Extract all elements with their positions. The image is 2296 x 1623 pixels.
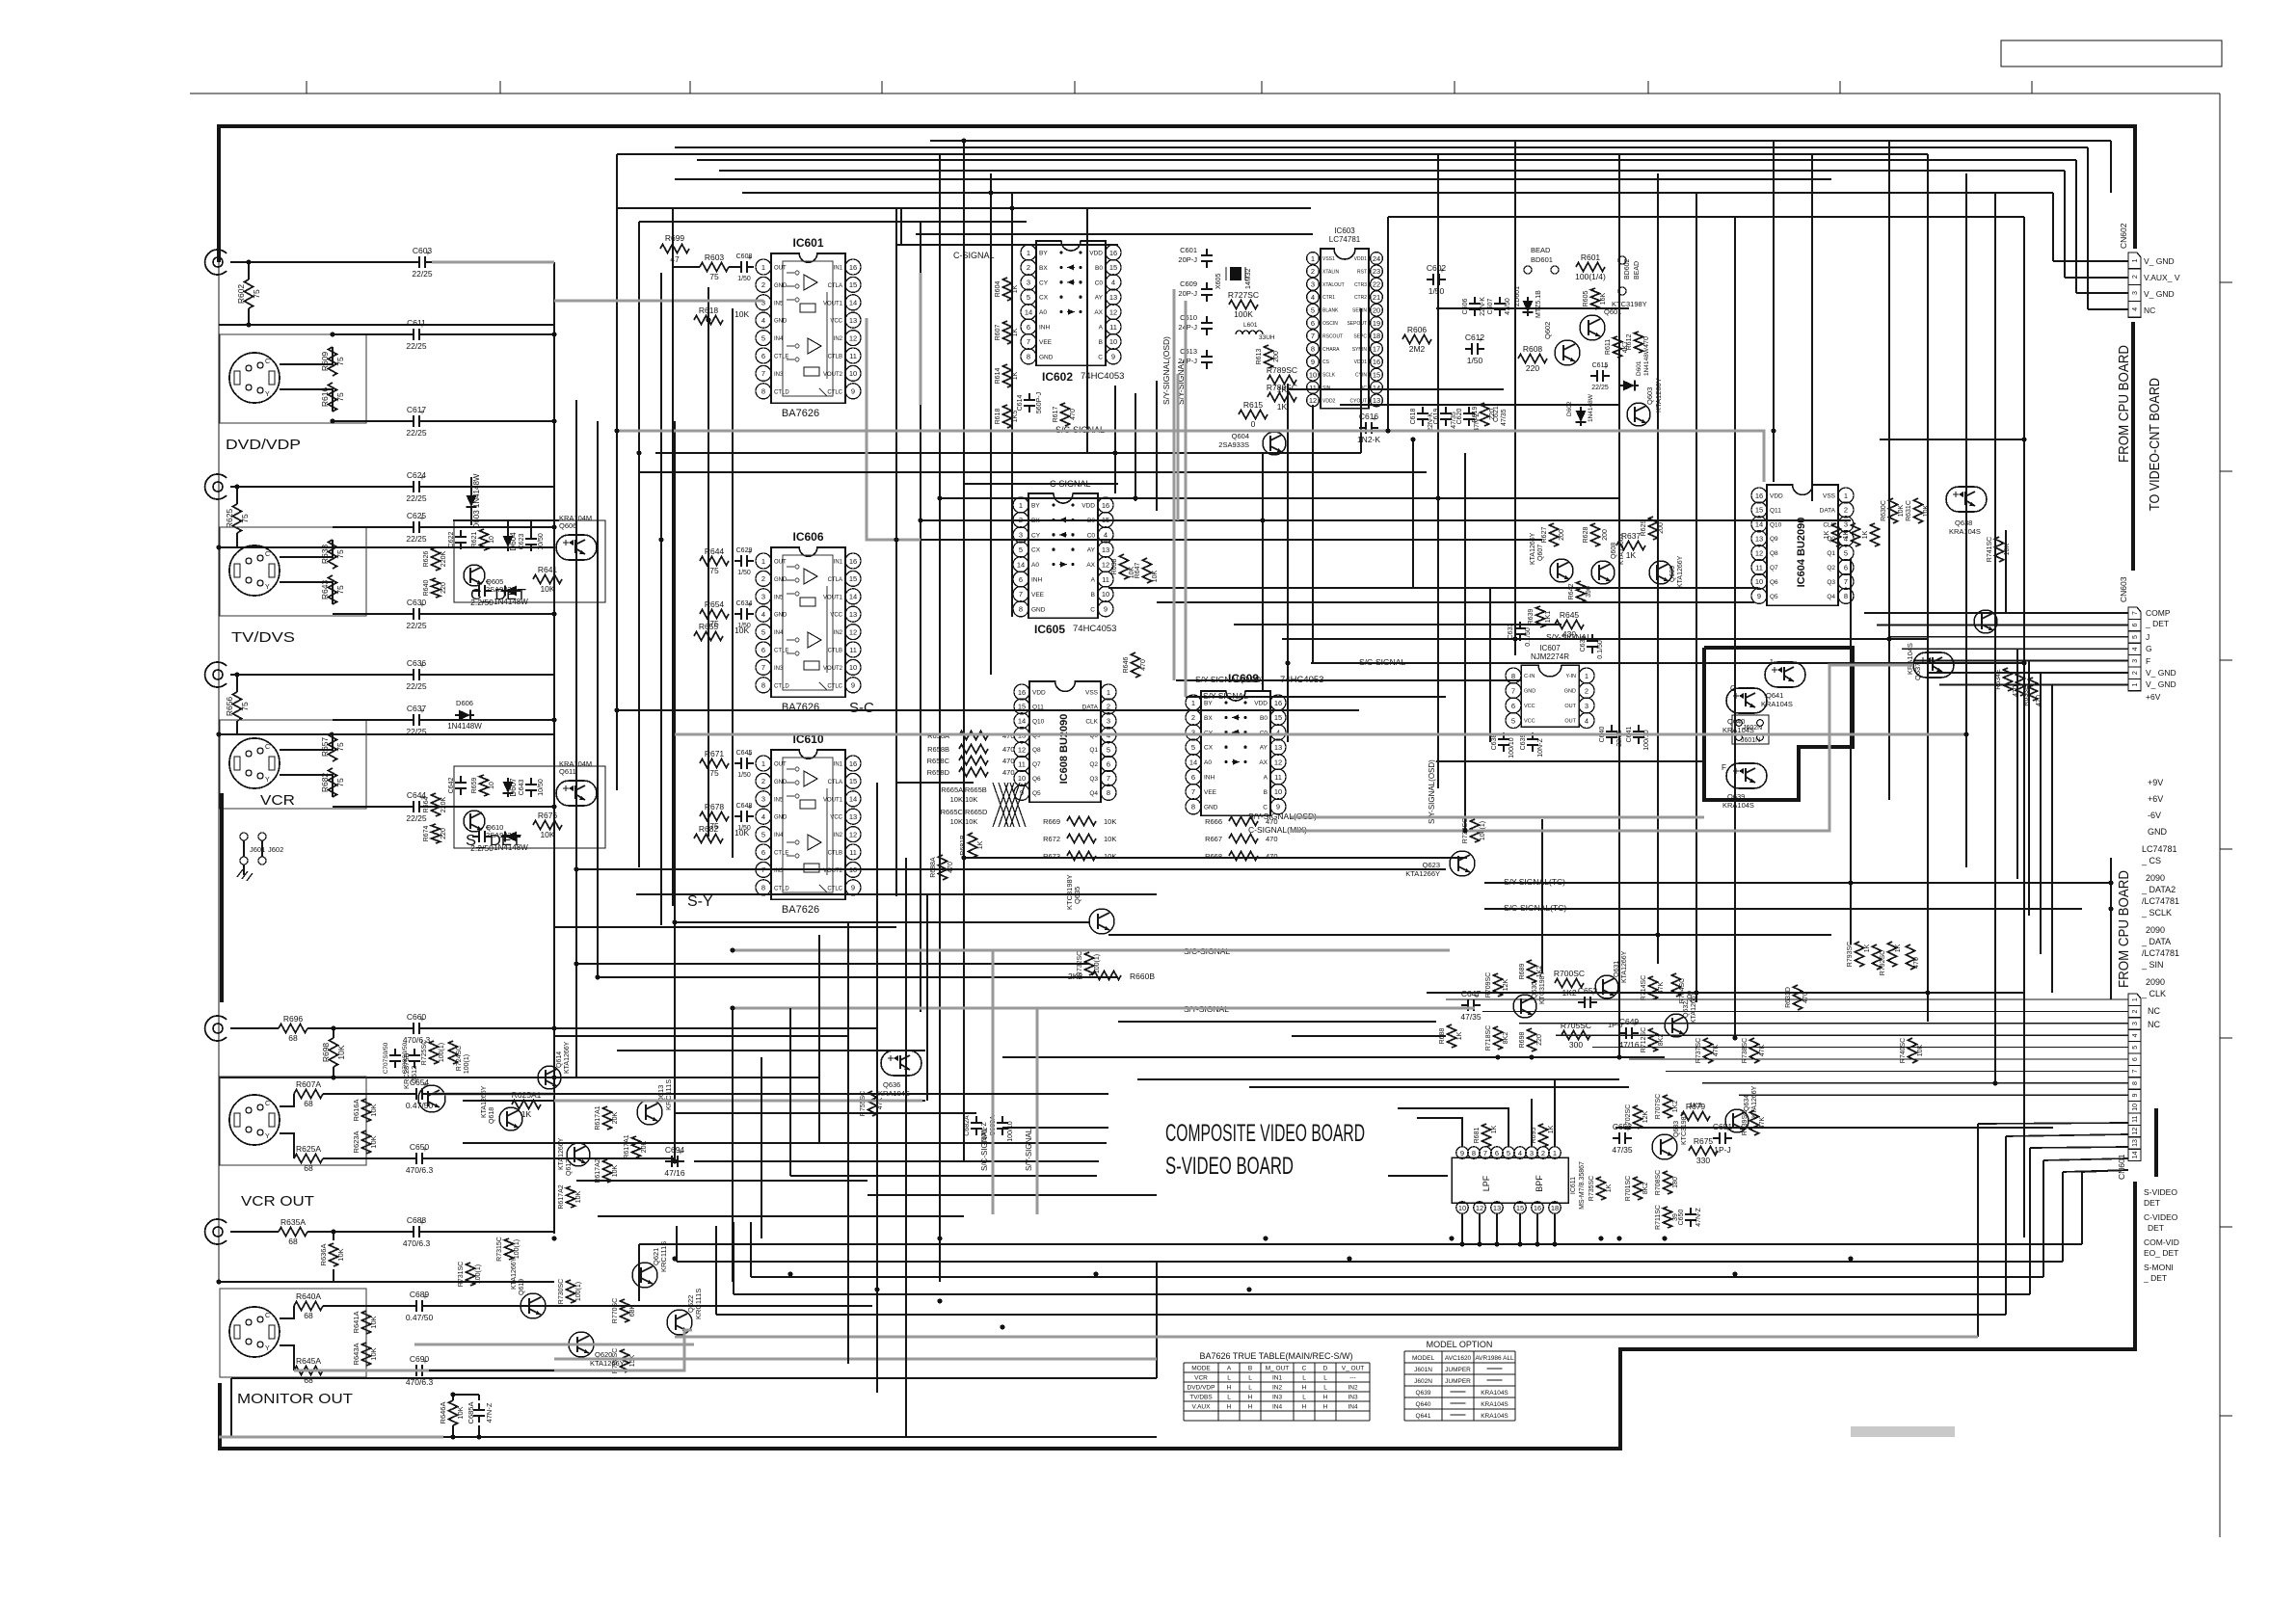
svg-text:18: 18 [1551, 1204, 1559, 1212]
svg-text:Q9: Q9 [1770, 536, 1778, 543]
wire vcr out jack [230, 1027, 279, 1029]
capacitor C628 [472, 590, 479, 592]
svg-text:1: 1 [2132, 258, 2139, 262]
capacitor C652 [1578, 1001, 1585, 1003]
svg-text:A0: A0 [1039, 309, 1047, 316]
svg-text:10K: 10K [540, 830, 554, 839]
svg-text:4: 4 [761, 812, 765, 821]
svg-text:8: 8 [761, 681, 765, 690]
svg-text:R671: R671 [705, 749, 725, 758]
svg-text:R635A: R635A [280, 1217, 306, 1227]
svg-text:10K: 10K [369, 1135, 378, 1148]
svg-text:10K: 10K [1917, 1044, 1924, 1056]
svg-text:C606: C606 [1462, 299, 1469, 315]
svg-text:R625: R625 [225, 509, 234, 529]
svg-text:H: H [1248, 1395, 1253, 1401]
svg-text:KTA1266Y: KTA1266Y [564, 1041, 571, 1074]
svg-text:2: 2 [1311, 267, 1315, 276]
svg-text:Q618: Q618 [489, 1107, 495, 1124]
resistor R791SC [1888, 942, 1897, 967]
svg-text:C617: C617 [407, 405, 427, 414]
svg-text:75: 75 [335, 392, 345, 402]
svg-text:IN2: IN2 [1272, 1385, 1283, 1392]
input group box VCR OUT [220, 1077, 366, 1165]
svg-text:C639: C639 [1520, 734, 1527, 751]
svg-text:H: H [1302, 1385, 1307, 1392]
svg-text:8: 8 [1027, 353, 1030, 361]
svg-text:BA7626: BA7626 [782, 904, 819, 916]
svg-text:2: 2 [1844, 506, 1848, 515]
svg-text:Q619: Q619 [519, 1279, 525, 1295]
wire monitor jack [230, 1231, 279, 1233]
svg-text:1/50: 1/50 [737, 570, 751, 576]
svg-text:1: 1 [1107, 688, 1110, 697]
wire verticals left-center [553, 262, 555, 1234]
svg-text:VEE: VEE [1204, 789, 1217, 796]
svg-text:6: 6 [761, 646, 765, 654]
svg-text:C_ DET: C_ DET [470, 587, 526, 603]
svg-text:BY: BY [1204, 701, 1213, 707]
svg-text:R681: R681 [1474, 1128, 1481, 1144]
svg-text:1K: 1K [1895, 944, 1902, 952]
resistor R616A [362, 1099, 371, 1122]
svg-text:J: J [2146, 632, 2149, 642]
svg-text:R625A: R625A [296, 1144, 321, 1154]
svg-text:OUT: OUT [774, 762, 787, 768]
svg-text:R607A: R607A [296, 1079, 321, 1089]
diode D606 [459, 710, 470, 721]
svg-text:KRA104M: KRA104M [559, 514, 592, 522]
svg-text:CYOUT: CYOUT [1350, 398, 1368, 404]
gray bus 1 [675, 1336, 1978, 1339]
svg-text:GND: GND [774, 319, 788, 325]
svg-text:12: 12 [1274, 758, 1282, 766]
svg-text:47K: 47K [877, 1097, 884, 1109]
svg-text:9: 9 [1757, 592, 1761, 600]
svg-text:20P-J: 20P-J [1178, 289, 1197, 298]
svg-text:47/35: 47/35 [1460, 1012, 1482, 1022]
svg-text:9: 9 [851, 681, 855, 690]
wires VCR s-video [280, 732, 333, 750]
svg-text:75: 75 [709, 768, 719, 778]
svg-text:AVC1620: AVC1620 [1445, 1355, 1472, 1362]
svg-text:OSCIN: OSCIN [1322, 321, 1338, 327]
svg-text:4: 4 [2132, 307, 2139, 311]
svg-text:CN602: CN602 [2119, 223, 2128, 249]
svg-text:100K: 100K [1234, 309, 1253, 319]
svg-text:R698: R698 [321, 1043, 331, 1063]
svg-text:R605: R605 [1583, 291, 1589, 307]
svg-text:B: B [1099, 339, 1103, 346]
svg-text:VCR: VCR [260, 792, 295, 809]
svg-text:IC611: IC611 [1570, 1177, 1577, 1194]
RCA jack MONITOR OUT video [205, 1219, 227, 1244]
svg-text:IC604 BU2090: IC604 BU2090 [1796, 518, 1807, 588]
svg-text:C652: C652 [1578, 986, 1598, 996]
svg-text:VDD: VDD [1081, 503, 1095, 510]
gray route vcr out [432, 1093, 554, 1096]
wire jack vcr [230, 674, 407, 676]
svg-text:10: 10 [1755, 577, 1763, 586]
svg-text:8: 8 [1019, 605, 1023, 614]
svg-text:S/C-SIGNAL(TC): S/C-SIGNAL(TC) [1504, 903, 1566, 913]
svg-text:100(1): 100(1) [439, 1043, 445, 1062]
resistor R630D [1907, 945, 1915, 970]
transistor Q641 [1765, 662, 1805, 687]
svg-text:R615: R615 [1243, 400, 1264, 410]
svg-text:R730SC: R730SC [558, 1279, 565, 1304]
svg-text:Q6: Q6 [1032, 776, 1041, 783]
svg-text:7: 7 [2132, 611, 2139, 615]
S-video connector VCR OUT [229, 1095, 280, 1145]
svg-text:R617A2: R617A2 [558, 1184, 565, 1209]
svg-text:3: 3 [1107, 717, 1110, 726]
input group box DVD/VDP [220, 334, 366, 423]
resistor R609 [329, 347, 337, 376]
svg-text:14: 14 [1373, 384, 1380, 392]
transistor Q621 [632, 1263, 657, 1288]
resistor R659 [480, 775, 489, 796]
option block thick box [1704, 648, 1853, 800]
capacitor C637 [407, 719, 414, 721]
svg-text:M_ OUT: M_ OUT [1266, 1366, 1290, 1372]
svg-text:_ DET: _ DET [2145, 619, 2169, 628]
resistor R645 [1555, 621, 1584, 629]
svg-text:H: H [1323, 1395, 1328, 1401]
transistor Q632 [1665, 1014, 1688, 1037]
svg-text:SEPOUT: SEPOUT [1347, 321, 1367, 327]
transistor Q614 [538, 1066, 561, 1089]
svg-text:3: 3 [2132, 659, 2139, 663]
svg-text:R658A: R658A [927, 732, 949, 740]
resistor R636A [330, 1243, 338, 1266]
resistor R656 [233, 692, 242, 721]
svg-text:6: 6 [1311, 319, 1315, 328]
svg-text:CTLB: CTLB [828, 851, 842, 857]
svg-text:R646A: R646A [439, 1402, 447, 1424]
resistor R755SC [868, 1091, 877, 1116]
svg-text:IN3: IN3 [1348, 1395, 1358, 1401]
resistor R630C [1889, 498, 1898, 523]
svg-text:5: 5 [1507, 1149, 1510, 1157]
resistor R641A [362, 1311, 371, 1334]
svg-text:KTA1266Y: KTA1266Y [511, 1257, 518, 1290]
resistor R647 [1143, 558, 1152, 583]
transistor Q620 [569, 1332, 594, 1357]
svg-text:8: 8 [1107, 788, 1110, 797]
svg-text:15: 15 [1373, 370, 1380, 379]
svg-text:AX: AX [1086, 562, 1095, 569]
resistor R626 [432, 547, 441, 571]
svg-text:Y: Y [265, 584, 270, 591]
svg-text:12K: 12K [1503, 978, 1509, 991]
svg-text:7: 7 [1483, 1149, 1487, 1157]
transistor Q636 [881, 1051, 921, 1076]
svg-text:1K: 1K [1012, 284, 1019, 293]
svg-text:VDD: VDD [1089, 251, 1103, 257]
resistor R607 [1003, 321, 1012, 344]
resistor R617 [1061, 403, 1070, 426]
svg-text:C624: C624 [407, 470, 427, 480]
resistor R788SC [1268, 393, 1296, 402]
connector CN603 [2128, 607, 2141, 619]
svg-text:C685A: C685A [467, 1402, 475, 1424]
svg-text:Y: Y [265, 391, 270, 398]
svg-text:Q640: Q640 [1416, 1401, 1431, 1408]
svg-text:R792SC: R792SC [1880, 950, 1886, 975]
resistor R623A [362, 1131, 371, 1154]
svg-text:12: 12 [1755, 548, 1763, 557]
transistor Q631 [1595, 975, 1618, 998]
svg-text:R725SC: R725SC [421, 1040, 428, 1065]
transistor Q606 [556, 535, 597, 560]
capacitor C694 [665, 1160, 672, 1162]
resistor R621 [480, 529, 489, 550]
svg-text:0.1/50: 0.1/50 [1597, 640, 1604, 659]
svg-text:Q10: Q10 [1032, 718, 1045, 725]
wire verticals right-center [1387, 217, 1389, 431]
svg-text:COMP: COMP [2146, 608, 2171, 618]
capacitor C707S [394, 1049, 396, 1055]
thick stub CN602 [2131, 322, 2135, 571]
svg-text:100(1/4): 100(1/4) [1575, 272, 1606, 281]
svg-text:VDD: VDD [1032, 690, 1046, 697]
svg-text:2SA933S: 2SA933S [1218, 440, 1249, 449]
svg-text:1K: 1K [1862, 530, 1869, 539]
svg-text:Q6: Q6 [1770, 579, 1778, 586]
svg-text:Q4: Q4 [1089, 790, 1098, 797]
svg-text:V.AUX: V.AUX [1192, 1404, 1212, 1411]
svg-text:A: A [1227, 1366, 1232, 1372]
svg-text:GND: GND [2148, 827, 2168, 837]
svg-text:10K: 10K [1152, 570, 1159, 582]
capacitor C613 [1206, 350, 1208, 357]
resistor R682 [329, 768, 337, 797]
capacitor C602 [1427, 279, 1433, 280]
svg-text:R639: R639 [1528, 609, 1535, 625]
transistor Q612 [418, 1085, 445, 1112]
svg-text:22N-K: 22N-K [1480, 297, 1486, 316]
svg-text:2: 2 [2132, 275, 2139, 279]
wire CN601 risers [2081, 1172, 2083, 1244]
svg-text:IN4: IN4 [1272, 1404, 1283, 1411]
jumper block J601N J602N [1732, 715, 1769, 744]
svg-text:470/6.3: 470/6.3 [403, 1238, 431, 1248]
None [1092, 971, 1121, 980]
resistor R608 [1518, 355, 1547, 363]
svg-text:_ DATA2: _ DATA2 [2141, 885, 2176, 894]
svg-text:1: 1 [1585, 672, 1589, 680]
svg-text:R718SC: R718SC [1485, 1025, 1492, 1051]
svg-text:A0: A0 [1031, 562, 1039, 569]
svg-text:R630C: R630C [1881, 500, 1887, 521]
wire jack dvd [230, 261, 413, 263]
junction dots [551, 332, 556, 336]
svg-text:2: 2 [1585, 686, 1589, 695]
svg-text:VSS1: VSS1 [1322, 256, 1335, 262]
svg-text:R714SC: R714SC [1641, 975, 1647, 1000]
svg-text:12K: 12K [1642, 1110, 1649, 1123]
svg-text:4: 4 [1111, 279, 1115, 287]
svg-text:A: A [1099, 325, 1104, 332]
capacitor C683A [1001, 1116, 1003, 1123]
svg-text:S/Y-SIGNAL(TC): S/Y-SIGNAL(TC) [1504, 877, 1565, 887]
resistor R664 [432, 793, 441, 816]
svg-text:KTA1266Y: KTA1266Y [1751, 1085, 1758, 1118]
svg-text:4: 4 [761, 610, 765, 619]
svg-text:V_ GND: V_ GND [2146, 679, 2176, 689]
resistor R630b [1832, 523, 1841, 546]
svg-text:VCC: VCC [830, 613, 842, 619]
svg-text:1K: 1K [1548, 1125, 1555, 1133]
svg-text:100/10: 100/10 [1643, 730, 1650, 751]
svg-text:C: C [265, 1101, 270, 1107]
svg-text:3: 3 [761, 593, 765, 601]
svg-text:R640A: R640A [296, 1291, 321, 1301]
svg-text:SCLK: SCLK [1322, 373, 1336, 379]
wire extra verticals bottom-center [789, 1008, 791, 1176]
svg-text:15: 15 [1755, 506, 1763, 515]
svg-text:TO VIDEO-CNT BOARD: TO VIDEO-CNT BOARD [2148, 378, 2163, 511]
svg-text:10: 10 [1458, 1204, 1466, 1212]
svg-text:C637: C637 [407, 704, 427, 713]
svg-text:1N4148W: 1N4148W [1643, 347, 1650, 376]
svg-text:C623: C623 [519, 534, 525, 550]
svg-text:470: 470 [1266, 835, 1278, 843]
transistor Q608 [1591, 561, 1615, 584]
svg-text:10K: 10K [369, 1347, 378, 1360]
svg-text:5: 5 [1027, 293, 1030, 302]
svg-text:R617A1: R617A1 [624, 1134, 630, 1158]
svg-text:V.AUX_ V: V.AUX_ V [2144, 273, 2180, 282]
svg-text:R793SC: R793SC [1847, 942, 1854, 967]
RCA jack TV/DVS video in [205, 474, 227, 499]
gray route dvd video [432, 261, 554, 264]
svg-text:3: 3 [2132, 1022, 2139, 1025]
svg-text:VEE: VEE [1039, 339, 1053, 346]
resistor R701SC [1634, 1177, 1642, 1200]
svg-text:S/C-SIGNAL: S/C-SIGNAL [980, 1127, 989, 1171]
svg-text:BPF: BPF [1535, 1175, 1544, 1192]
svg-text:S_ DET: S_ DET [466, 833, 521, 849]
thick board outline bottom [220, 1182, 2135, 1449]
svg-text:R727SC: R727SC [1228, 290, 1259, 300]
None [1523, 301, 1534, 312]
svg-text:22/25: 22/25 [1591, 385, 1609, 391]
resistor R643 [329, 575, 337, 604]
svg-text:VDD1: VDD1 [1354, 256, 1368, 262]
svg-text:C: C [265, 1313, 270, 1319]
gray route S/Y vertical pair [1173, 289, 1176, 680]
svg-text:VCR OUT: VCR OUT [241, 1193, 314, 1210]
svg-text:F: F [1722, 763, 1726, 772]
inductor L601 [1236, 331, 1242, 334]
wire r646a [453, 1394, 479, 1396]
svg-text:Q606: Q606 [559, 521, 576, 530]
svg-text:SIN: SIN [1322, 386, 1331, 391]
svg-text:3: 3 [1027, 279, 1030, 287]
transistor Q610 [464, 811, 485, 832]
resistor R617A1b [632, 1136, 641, 1157]
svg-text:C: C [1263, 804, 1268, 811]
svg-text:R638: R638 [320, 545, 330, 565]
svg-text:CHARA: CHARA [1322, 347, 1340, 353]
svg-text:Q602: Q602 [1543, 322, 1552, 339]
svg-text:10K: 10K [1104, 835, 1116, 843]
svg-text:13: 13 [849, 610, 857, 619]
svg-text:74HC4053: 74HC4053 [1073, 624, 1116, 634]
IC internal detail [783, 758, 833, 892]
capacitor C624 [407, 486, 414, 488]
svg-text:R613: R613 [1256, 349, 1263, 365]
wire mid horizontals [1436, 307, 1629, 309]
resistor R789SC [1268, 376, 1296, 385]
svg-text:9: 9 [1104, 605, 1108, 614]
svg-text:470: 470 [1002, 768, 1015, 777]
svg-text:C690: C690 [410, 1354, 430, 1364]
svg-text:C633: C633 [1508, 624, 1514, 640]
svg-text:S/Y-SIGNAL(OSD): S/Y-SIGNAL(OSD) [1161, 336, 1171, 405]
border tick [2220, 848, 2232, 850]
transistor Q603 [1627, 403, 1650, 426]
svg-text:DET: DET [2148, 1223, 2164, 1233]
svg-text:RST: RST [1357, 269, 1367, 275]
svg-text:16: 16 [1373, 358, 1380, 366]
svg-text:470: 470 [1002, 757, 1015, 765]
svg-text:KTA1266Y: KTA1266Y [1677, 555, 1684, 588]
svg-text:C650: C650 [1678, 1210, 1685, 1226]
svg-text:6: 6 [2132, 624, 2139, 627]
svg-text:KTC3198Y: KTC3198Y [1612, 300, 1647, 308]
svg-text:R604: R604 [995, 281, 1001, 298]
capacitor C646 [472, 836, 479, 838]
ground [243, 865, 245, 875]
None [1067, 817, 1096, 826]
capacitor C610 [1206, 316, 1208, 323]
svg-text:10: 10 [849, 369, 857, 378]
svg-text:L: L [1227, 1375, 1231, 1382]
wire bus band bottom [639, 1243, 2082, 1245]
svg-text:VSS: VSS [1823, 493, 1836, 500]
svg-text:R621: R621 [471, 532, 478, 548]
resistor R616 [329, 383, 337, 412]
svg-text:A: A [1264, 775, 1268, 782]
svg-text:15: 15 [1274, 713, 1282, 722]
resistor R633E [2016, 673, 2025, 696]
resistor R698b [1528, 1028, 1536, 1051]
input group box VCR [220, 720, 366, 809]
transistor Q605 [464, 565, 485, 586]
svg-text:NC: NC [2148, 1006, 2160, 1016]
transistor Q602 [1555, 340, 1580, 365]
svg-text:R659: R659 [471, 778, 478, 794]
svg-text:KTA1266Y: KTA1266Y [1621, 950, 1628, 983]
svg-text:47/35: 47/35 [1612, 1145, 1633, 1155]
wire LPF top stubs [1417, 1118, 1462, 1147]
svg-text:Q1: Q1 [1827, 550, 1835, 557]
svg-text:1N4148W: 1N4148W [1588, 393, 1594, 422]
resistor R617A1 [603, 1106, 612, 1130]
svg-text:R699: R699 [665, 233, 685, 243]
svg-text:8: 8 [1191, 803, 1195, 811]
svg-text:75: 75 [709, 272, 719, 281]
svg-text:B: B [1091, 592, 1095, 599]
svg-text:R614: R614 [995, 368, 1001, 385]
svg-text:R770SC: R770SC [612, 1298, 619, 1323]
thick stub CN601 right [2154, 1108, 2158, 1177]
svg-text:0.1/50: 0.1/50 [1525, 627, 1532, 647]
capacitor C708S [414, 1049, 415, 1055]
